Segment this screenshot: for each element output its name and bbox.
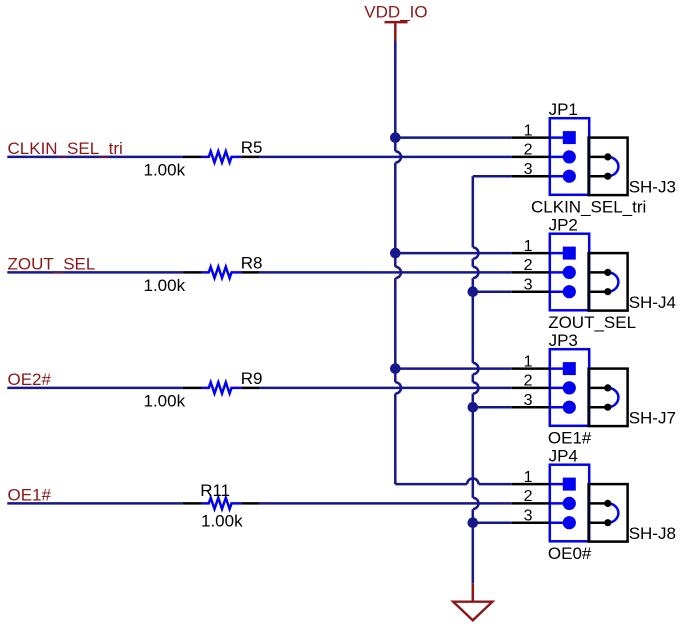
svg-text:1.00k: 1.00k	[144, 160, 186, 179]
junction GND / JP4 pin3	[468, 517, 479, 528]
svg-text:3: 3	[524, 161, 533, 178]
wire net ZOUT_SEL row	[7, 271, 511, 274]
pin 1 square pad of JP2	[563, 247, 576, 260]
svg-text:ZOUT_SEL: ZOUT_SEL	[8, 255, 96, 274]
pin 1 square pad of JP3	[563, 362, 576, 375]
wire net OE2# row	[7, 387, 511, 390]
pin 2 lead of JP4	[512, 502, 550, 505]
svg-text:SH-J8: SH-J8	[629, 524, 676, 543]
svg-text:SH-J3: SH-J3	[629, 178, 676, 197]
pin 3 lead of JP1	[512, 175, 550, 178]
svg-text:CLKIN_SEL_tri: CLKIN_SEL_tri	[531, 198, 646, 217]
svg-text:2: 2	[524, 488, 533, 505]
svg-text:OE1#: OE1#	[548, 429, 592, 448]
jumper header JP1	[512, 100, 590, 195]
pin 2 lead of JP1	[512, 156, 550, 159]
svg-text:2: 2	[524, 142, 533, 159]
junction VDD_IO / JP1 pin1	[390, 132, 401, 143]
svg-text:1: 1	[524, 122, 533, 139]
svg-text:1.00k: 1.00k	[144, 276, 186, 295]
wire VDD_IO to JP4 pin 1	[395, 478, 511, 484]
svg-text:VDD_IO: VDD_IO	[364, 2, 427, 21]
resistor R8	[144, 254, 263, 295]
pin 3 round pad of JP1	[563, 170, 576, 183]
power symbol VDD_IO	[364, 2, 427, 41]
pin 1 lead of JP3	[512, 367, 550, 370]
pin 2 round pad of JP2	[563, 266, 576, 279]
shunt SH-J4	[589, 253, 676, 312]
pin 2 lead of JP2	[512, 271, 550, 274]
svg-text:R5: R5	[241, 138, 263, 157]
pin 1 lead of JP1	[512, 136, 550, 139]
pin 1 square pad of JP1	[563, 131, 576, 144]
wire net OE1# row	[7, 502, 511, 505]
junction GND / JP2 pin3	[468, 286, 479, 297]
svg-text:JP4: JP4	[549, 447, 578, 466]
svg-text:R8: R8	[241, 254, 263, 273]
svg-text:1: 1	[524, 469, 533, 486]
pin 2 round pad of JP4	[563, 497, 576, 510]
svg-text:CLKIN_SEL_tri: CLKIN_SEL_tri	[8, 139, 123, 158]
svg-text:OE2#: OE2#	[8, 370, 52, 389]
svg-text:1: 1	[524, 353, 533, 370]
svg-text:JP2: JP2	[549, 216, 578, 235]
svg-text:2: 2	[524, 373, 533, 390]
svg-text:SH-J4: SH-J4	[629, 293, 676, 312]
svg-text:1.00k: 1.00k	[144, 391, 186, 410]
svg-text:OE1#: OE1#	[8, 486, 52, 505]
pin 2 round pad of JP3	[563, 381, 576, 394]
svg-text:R11: R11	[200, 481, 230, 500]
junction GND / JP3 pin3	[468, 402, 479, 413]
svg-text:R9: R9	[241, 369, 263, 388]
ground	[453, 583, 492, 620]
jumper header JP2	[512, 216, 590, 311]
wire GND to JP4 pin 3	[473, 521, 512, 524]
svg-text:ZOUT_SEL: ZOUT_SEL	[548, 313, 636, 332]
shunt SH-J8	[589, 484, 676, 543]
wire net CLKIN_SEL_tri row	[7, 156, 511, 159]
svg-text:3: 3	[524, 392, 533, 409]
wire GND vertical bus	[473, 176, 479, 583]
pin 1 lead of JP2	[512, 252, 550, 255]
pin 3 lead of JP3	[512, 406, 550, 409]
svg-text:JP1: JP1	[549, 100, 578, 119]
wire GND to JP2 pin 3	[473, 290, 512, 293]
svg-text:3: 3	[524, 277, 533, 294]
shunt SH-J3	[589, 138, 676, 197]
wire VDD_IO to JP1 pin 1	[395, 136, 511, 139]
shunt SH-J7	[589, 369, 676, 428]
pin 3 lead of JP4	[512, 521, 550, 524]
resistor R11	[183, 481, 260, 531]
svg-text:1: 1	[524, 238, 533, 255]
wire GND to JP3 pin 3	[473, 406, 512, 409]
wire VDD_IO to JP3 pin 1	[395, 367, 511, 370]
wire VDD_IO to JP2 pin 1	[395, 252, 511, 255]
pin 2 round pad of JP1	[563, 150, 576, 163]
pin 2 lead of JP3	[512, 387, 550, 390]
svg-text:JP3: JP3	[549, 331, 578, 350]
jumper header JP3	[512, 331, 590, 426]
svg-text:3: 3	[524, 508, 533, 525]
svg-text:SH-J7: SH-J7	[629, 409, 676, 428]
jumper header JP4	[512, 447, 590, 542]
wire GND to JP1 pin 3	[473, 175, 512, 178]
junction VDD_IO / JP3 pin1	[390, 363, 401, 374]
pin 3 round pad of JP3	[563, 401, 576, 414]
svg-text:2: 2	[524, 257, 533, 274]
svg-text:OE0#: OE0#	[548, 544, 592, 563]
resistor R5	[144, 138, 263, 179]
pin 3 round pad of JP2	[563, 285, 576, 298]
pin 3 round pad of JP4	[563, 516, 576, 529]
resistor R9	[144, 369, 263, 410]
pin 1 lead of JP4	[512, 483, 550, 486]
pin 3 lead of JP2	[512, 290, 550, 293]
wire VDD_IO vertical bus	[395, 41, 401, 484]
svg-text:1.00k: 1.00k	[201, 512, 243, 531]
junction VDD_IO / JP2 pin1	[390, 248, 401, 259]
pin 1 square pad of JP4	[563, 478, 576, 491]
